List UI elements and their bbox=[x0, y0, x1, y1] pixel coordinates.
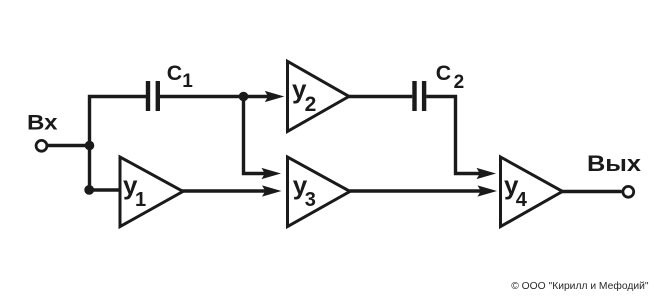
svg-text:3: 3 bbox=[305, 189, 316, 211]
svg-text:© ООО "Кирилл и Мефодий": © ООО "Кирилл и Мефодий" bbox=[511, 280, 649, 292]
svg-text:Вх: Вх bbox=[27, 111, 58, 134]
svg-text:C: C bbox=[436, 61, 451, 85]
svg-text:4: 4 bbox=[516, 189, 528, 211]
svg-text:1: 1 bbox=[182, 71, 193, 92]
svg-text:Вых: Вых bbox=[587, 151, 642, 176]
svg-text:2: 2 bbox=[305, 93, 317, 116]
svg-text:2: 2 bbox=[454, 72, 465, 93]
svg-text:1: 1 bbox=[135, 189, 146, 211]
svg-text:C: C bbox=[167, 61, 182, 85]
